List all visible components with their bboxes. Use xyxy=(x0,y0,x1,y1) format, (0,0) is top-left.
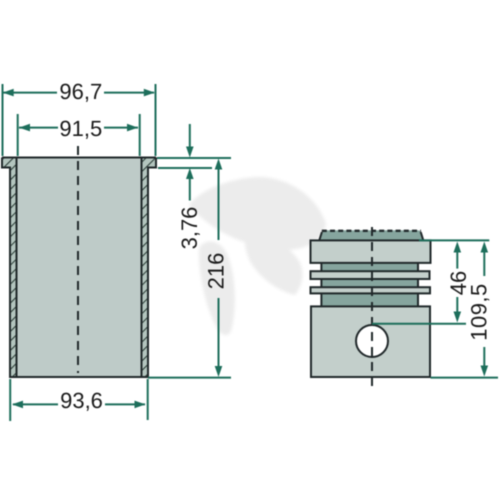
93,6 dim line xyxy=(13,403,58,405)
svg-text:3,76: 3,76 xyxy=(177,207,202,250)
216 dim line lower xyxy=(218,298,220,370)
46 dim line xyxy=(456,249,458,269)
svg-text:96,7: 96,7 xyxy=(59,79,102,104)
piston crown land xyxy=(311,240,431,263)
piston ring land 2 xyxy=(311,287,431,293)
109,5 arrows xyxy=(481,242,489,253)
91,5 ext lines xyxy=(17,114,19,156)
top ext line xyxy=(419,239,489,241)
dimensions (teal) xyxy=(3,84,232,421)
piston centerline xyxy=(371,227,373,391)
dome right edge xyxy=(421,232,424,241)
watermark middle petal xyxy=(245,237,302,295)
93,6 arrows xyxy=(12,401,23,409)
96,7 ext lines xyxy=(2,84,4,156)
93,6 ext lines xyxy=(9,379,11,421)
liner bottom ext to right xyxy=(148,377,231,379)
piston dome (combustion bowl top, hidden edge) xyxy=(319,230,423,241)
liner centerline xyxy=(77,146,79,373)
96,7 arrows xyxy=(3,89,14,97)
3,76 arrows xyxy=(186,147,194,158)
91,5 arrows xyxy=(19,124,30,132)
svg-text:109,5: 109,5 xyxy=(467,283,492,341)
216 arrows xyxy=(215,159,223,170)
flange top ext to right xyxy=(157,157,231,159)
46 arrows xyxy=(454,242,462,253)
3,76 lower arrow line xyxy=(189,175,191,201)
piston dimension lines xyxy=(372,240,498,377)
watermark lower petal xyxy=(199,241,235,335)
svg-text:93,6: 93,6 xyxy=(60,388,103,413)
dome dashed top xyxy=(322,230,421,232)
svg-text:216: 216 xyxy=(204,253,229,290)
liner left wall (hatched section) xyxy=(2,158,17,378)
liner right wall (hatched section) xyxy=(142,158,157,378)
watermark leaf logo xyxy=(189,177,326,335)
arrows liner xyxy=(3,89,223,408)
109,5 dim line xyxy=(483,249,485,276)
3,76 upper arrow line xyxy=(189,124,191,151)
ring groove 2 (recessed band) xyxy=(321,278,418,288)
ring groove 3 (recessed band) xyxy=(321,292,418,307)
dome left edge xyxy=(319,232,322,241)
piston pin bore xyxy=(356,325,388,357)
pin leader xyxy=(372,323,466,325)
bottom ext line xyxy=(431,377,499,379)
216 dim line upper xyxy=(218,166,220,240)
ring groove 1 (recessed band) xyxy=(321,262,418,272)
cylinder liner bore fill xyxy=(17,158,142,378)
piston ring land 1 xyxy=(311,271,430,279)
watermark upper petal xyxy=(189,177,326,250)
flange bottom ext to right xyxy=(158,167,212,169)
piston skirt xyxy=(311,306,430,377)
96,7 dim line xyxy=(4,92,58,94)
91,5 dim line xyxy=(19,127,58,129)
svg-text:91,5: 91,5 xyxy=(59,116,102,141)
liner outline xyxy=(2,158,156,378)
